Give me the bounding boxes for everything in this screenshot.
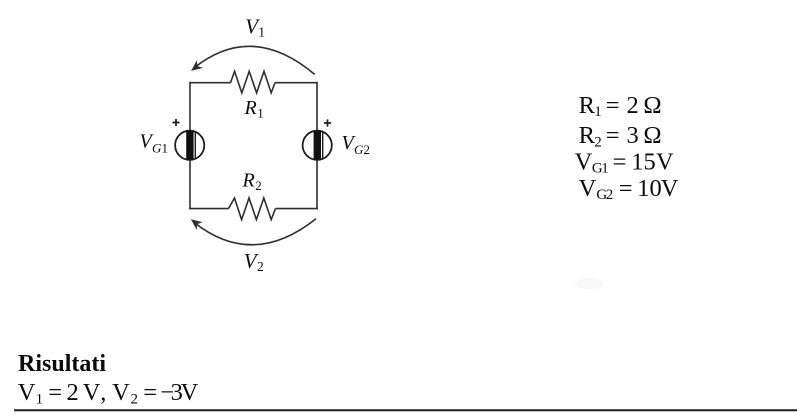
svg-text:10: 10 (637, 175, 662, 202)
voltage source VG1 (175, 131, 204, 160)
svg-text:=: = (613, 149, 627, 176)
svg-text:=: = (606, 122, 620, 149)
svg-text:,: , (100, 379, 106, 406)
svg-text:V: V (18, 379, 36, 406)
label V2 (244, 249, 264, 274)
wire bottom-right segment (276, 208, 318, 210)
resistor R1 (231, 71, 276, 93)
label VG2 (342, 132, 371, 157)
svg-text:R: R (242, 170, 255, 192)
polarity plus VG1 (172, 119, 179, 126)
svg-text:V: V (83, 379, 101, 406)
value VG1 = 15 V (575, 149, 674, 177)
label R2 (242, 170, 262, 193)
svg-text:=: = (48, 379, 62, 406)
label R1 (244, 97, 264, 120)
svg-text:2: 2 (67, 379, 79, 406)
label V1 (245, 15, 265, 40)
svg-text:R: R (244, 97, 257, 119)
svg-text:Risultati: Risultati (18, 351, 106, 377)
svg-text:2: 2 (594, 134, 602, 150)
svg-text:G2: G2 (596, 187, 612, 203)
svg-text:3: 3 (627, 122, 639, 149)
value VG2 = 10 V (579, 175, 679, 203)
svg-text:2: 2 (627, 92, 639, 119)
svg-text:R: R (579, 122, 596, 149)
svg-text:V: V (575, 149, 593, 176)
heading Risultati (18, 351, 106, 377)
svg-text:15: 15 (631, 149, 656, 176)
voltage source VG2 (303, 131, 332, 160)
svg-text:Ω: Ω (643, 92, 661, 119)
svg-text:=: = (606, 92, 620, 119)
label VG1 (140, 131, 169, 156)
arrow V2 (bottom arc) (192, 219, 316, 245)
svg-text:V: V (661, 175, 679, 202)
rule bottom (14, 409, 797, 411)
svg-text:G: G (354, 142, 364, 157)
svg-text:2: 2 (131, 392, 139, 408)
wire top-right segment (275, 82, 318, 84)
svg-text:2: 2 (257, 259, 264, 274)
arrow V1 (top arc) (192, 46, 314, 74)
results V1 = 2 V, V2 = -3V (18, 379, 199, 408)
svg-text:1: 1 (594, 104, 602, 120)
svg-text:G1: G1 (592, 161, 608, 177)
svg-text:Ω: Ω (643, 122, 661, 149)
svg-text:=: = (143, 379, 157, 406)
svg-text:R: R (579, 92, 596, 119)
svg-text:G: G (152, 141, 162, 156)
value R1 = 2 ohm (579, 92, 662, 120)
wire bottom-left segment (189, 208, 228, 210)
svg-text:V: V (656, 149, 674, 176)
svg-text:1: 1 (36, 392, 44, 408)
wire right vertical (316, 82, 318, 209)
svg-text:1: 1 (162, 141, 169, 156)
svg-text:1: 1 (257, 106, 264, 121)
svg-text:V: V (181, 379, 199, 406)
svg-text:2: 2 (364, 142, 371, 157)
svg-text:1: 1 (258, 24, 265, 39)
svg-text:V: V (579, 175, 597, 202)
value R2 = 3 ohm (579, 122, 662, 150)
svg-text:2: 2 (255, 178, 261, 193)
scan artifact smudge (575, 278, 603, 289)
svg-text:V: V (112, 379, 130, 406)
svg-text:=: = (619, 175, 633, 202)
wire left vertical (189, 82, 191, 209)
polarity plus VG2 (324, 119, 331, 126)
resistor R2 (229, 198, 276, 220)
wire top-left segment (189, 82, 230, 84)
